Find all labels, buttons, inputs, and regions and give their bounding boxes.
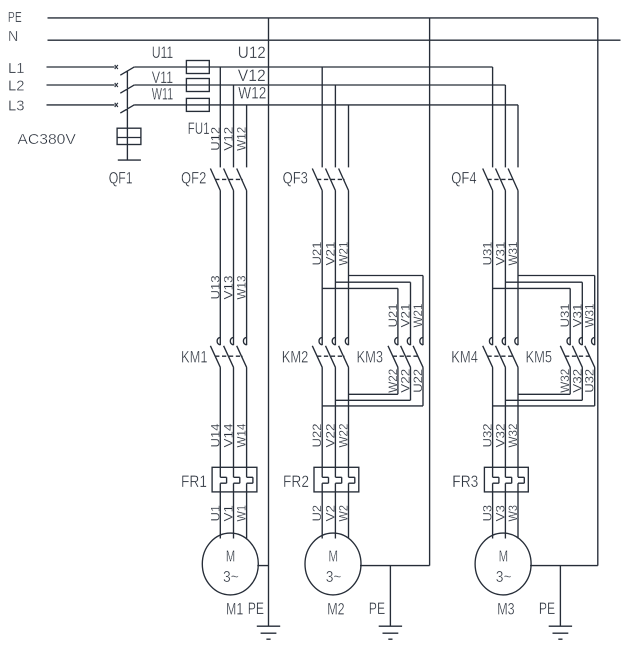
svg-text:W22: W22 (337, 423, 351, 447)
svg-text:FR1: FR1 (181, 472, 207, 491)
svg-text:W21: W21 (337, 241, 351, 265)
svg-text:W21: W21 (411, 303, 425, 327)
svg-text:M3: M3 (497, 600, 514, 619)
svg-text:AC380V: AC380V (17, 131, 76, 148)
svg-text:N: N (8, 28, 18, 45)
svg-text:U21: U21 (310, 241, 324, 265)
svg-text:QF1: QF1 (109, 169, 133, 188)
svg-text:KM5: KM5 (526, 348, 553, 367)
svg-text:3~: 3~ (496, 569, 512, 586)
svg-text:3~: 3~ (223, 569, 239, 586)
svg-text:M: M (499, 549, 509, 566)
svg-text:U12: U12 (238, 43, 266, 62)
svg-text:V2: V2 (323, 505, 337, 522)
svg-text:M2: M2 (327, 600, 344, 619)
svg-text:W13: W13 (235, 275, 249, 299)
svg-text:U22: U22 (310, 423, 324, 447)
svg-text:L1: L1 (8, 60, 25, 77)
svg-text:V14: V14 (222, 423, 236, 447)
svg-text:W31: W31 (583, 303, 597, 327)
svg-text:PE: PE (248, 599, 264, 618)
svg-text:W12: W12 (235, 127, 249, 151)
svg-text:QF4: QF4 (451, 169, 476, 188)
svg-text:U11: U11 (152, 43, 174, 62)
svg-text:V1: V1 (222, 505, 236, 522)
svg-text:W31: W31 (506, 241, 520, 265)
svg-text:W2: W2 (337, 505, 351, 522)
svg-text:V12: V12 (238, 66, 266, 85)
svg-text:V12: V12 (222, 127, 236, 151)
svg-text:W14: W14 (235, 423, 249, 447)
svg-text:QF3: QF3 (283, 169, 308, 188)
svg-text:W11: W11 (152, 85, 174, 104)
svg-text:KM1: KM1 (181, 348, 208, 367)
svg-text:KM2: KM2 (282, 348, 309, 367)
svg-text:W32: W32 (506, 423, 520, 447)
svg-text:L3: L3 (8, 97, 25, 114)
svg-text:L2: L2 (8, 78, 25, 95)
svg-text:W3: W3 (506, 505, 520, 522)
svg-text:U12: U12 (208, 127, 222, 151)
svg-text:PE: PE (369, 599, 385, 618)
svg-text:M1: M1 (226, 600, 243, 619)
svg-text:PE: PE (539, 599, 555, 618)
svg-text:V13: V13 (222, 275, 236, 299)
svg-text:KM4: KM4 (451, 348, 478, 367)
svg-text:3~: 3~ (326, 569, 342, 586)
svg-text:U14: U14 (208, 423, 222, 447)
svg-text:V22: V22 (323, 423, 337, 447)
svg-text:U1: U1 (208, 505, 222, 522)
svg-text:U2: U2 (310, 505, 324, 522)
svg-text:KM3: KM3 (357, 348, 384, 367)
svg-text:M: M (329, 549, 339, 566)
svg-text:FU1: FU1 (188, 119, 210, 138)
svg-text:U32: U32 (583, 369, 597, 393)
svg-text:PE: PE (8, 9, 22, 26)
svg-text:V21: V21 (323, 241, 337, 265)
svg-text:U13: U13 (208, 275, 222, 299)
svg-text:FR2: FR2 (283, 472, 309, 491)
svg-text:M: M (226, 549, 236, 566)
svg-text:U22: U22 (411, 369, 425, 393)
svg-text:W12: W12 (238, 84, 266, 103)
svg-text:QF2: QF2 (181, 169, 206, 188)
svg-text:FR3: FR3 (452, 472, 478, 491)
svg-text:W1: W1 (235, 505, 249, 522)
